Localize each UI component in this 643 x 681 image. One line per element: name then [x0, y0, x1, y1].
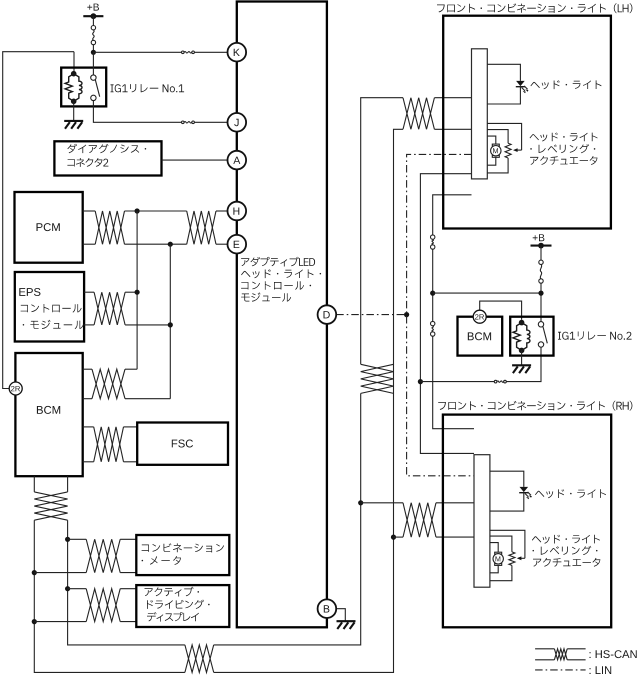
LH inner connector rect	[472, 49, 488, 179]
connector E	[228, 235, 247, 254]
potentiometer RH	[509, 552, 515, 566]
wire motor bottom LH	[487, 157, 496, 165]
wiper arrow LH	[515, 149, 522, 151]
BCM box right	[458, 317, 503, 356]
wire coil to ground	[521, 350, 523, 365]
battery +B No.2	[533, 234, 545, 241]
twisted pair display	[86, 589, 120, 622]
wire into LH CAN-L	[434, 128, 471, 130]
wire PCM CAN-L	[83, 243, 96, 245]
wire switch top	[92, 52, 94, 75]
wire FSC pair bottom	[83, 461, 94, 463]
legend LIN label	[590, 666, 612, 674]
wire display pair bottom	[34, 621, 86, 623]
node CAN A to RH	[358, 500, 363, 505]
wire into LH CAN-H	[434, 97, 471, 99]
relay IG1 No.1 switch	[91, 75, 96, 80]
meter label	[142, 543, 224, 552]
motor LH	[492, 144, 499, 146]
wire	[120, 572, 136, 574]
wire LED loop bottom	[487, 86, 520, 104]
twisted pair EPS	[94, 292, 125, 325]
connector J	[228, 113, 247, 132]
legend LIN symbol	[535, 669, 586, 671]
leveling actuator label LH	[530, 133, 598, 142]
connector B	[318, 599, 337, 618]
wire	[125, 324, 170, 326]
RH inner connector rect	[474, 455, 490, 588]
connector 2R BCM	[9, 382, 22, 395]
twisted pair vertical CAN	[361, 364, 394, 393]
LED head light LH	[516, 81, 525, 86]
wire +B junction	[433, 292, 541, 294]
wire	[125, 368, 137, 370]
wire	[92, 45, 94, 53]
relay IG1 No.2 coil	[519, 320, 525, 326]
wire IG feed to LH	[420, 174, 474, 454]
wire RH CAN-L	[394, 536, 404, 538]
combination meter box	[136, 535, 229, 575]
wire	[125, 210, 187, 212]
wire to E	[216, 243, 228, 245]
PCM label	[37, 223, 60, 231]
wire	[125, 398, 170, 400]
fuse RH headlight	[431, 321, 435, 325]
relay IG1 No.1 box	[61, 68, 106, 107]
wire	[124, 426, 138, 428]
fuse main No.1	[91, 26, 95, 30]
wire to H	[216, 210, 228, 212]
wire	[92, 16, 94, 25]
wire to K	[93, 51, 181, 53]
wire 2R to relay coil No.2	[480, 301, 522, 320]
node LIN	[404, 312, 409, 317]
wire	[120, 588, 136, 590]
diagnosis connector 2 box	[54, 141, 161, 175]
wire CAN B bottom	[214, 537, 394, 672]
wire RH CAN-H	[361, 502, 403, 504]
wire CAN B up	[394, 129, 404, 537]
wire	[124, 461, 138, 463]
wire CAN-H bus	[136, 211, 138, 369]
legend HS-CAN symbol	[535, 648, 554, 650]
legend HS-CAN label	[590, 650, 637, 658]
wire LED loop top	[487, 64, 520, 81]
diagnosis label	[67, 144, 146, 153]
wire EPS CAN-H	[84, 291, 94, 293]
LH title	[437, 3, 632, 13]
potentiometer LH	[505, 143, 511, 158]
twisted pair BCM lower	[34, 492, 67, 520]
leveling actuator label RH	[532, 535, 600, 544]
node +B feed	[430, 291, 435, 296]
wire coil to ground	[73, 101, 75, 121]
BCM box	[15, 353, 82, 476]
wire wiper RH	[490, 530, 525, 558]
head light label RH	[535, 489, 606, 498]
wire CAN B down	[34, 520, 185, 672]
fuse main No.2	[539, 260, 543, 264]
wire potentiometer bottom LH	[487, 158, 508, 173]
wire	[120, 538, 136, 540]
wire	[194, 51, 227, 53]
ground relay No.1	[64, 120, 83, 122]
wire wiper LH	[487, 123, 521, 150]
motor RH	[495, 552, 502, 554]
node +B junction	[91, 50, 96, 55]
BCM right label	[468, 332, 491, 340]
twisted pair PCM	[95, 211, 124, 244]
connector A	[228, 151, 247, 170]
connector K	[228, 43, 247, 62]
node meter H	[65, 537, 70, 542]
node	[168, 322, 173, 327]
connector 2R BCM right	[473, 310, 486, 323]
display label	[145, 587, 200, 597]
wire potentiometer top RH	[490, 536, 512, 552]
wire	[125, 291, 137, 293]
wire switch to J	[93, 101, 181, 123]
wire meter pair bottom	[34, 572, 86, 574]
wire CAN A up	[361, 98, 403, 365]
twisted pair bottom run	[185, 645, 214, 673]
wire +B feed to RH	[433, 336, 474, 429]
RH title	[438, 401, 632, 411]
fusible link K	[182, 51, 185, 54]
wire potentiometer bottom RH	[490, 565, 512, 580]
wire LED loop bottom RH	[490, 492, 524, 511]
wire diag to A	[162, 159, 228, 161]
wire FSC pair top	[83, 426, 94, 428]
wire +B feed to LH	[433, 195, 472, 235]
wire PCM CAN-H	[83, 210, 96, 212]
wire	[436, 502, 474, 504]
relay IG1 No.2 switch	[538, 322, 543, 327]
LED head light RH	[520, 487, 529, 492]
module label	[241, 257, 315, 267]
front combination light LH box	[443, 16, 611, 229]
wire display pair top	[68, 588, 87, 590]
wire relay coil feed	[73, 52, 75, 71]
front combination light RH box	[443, 415, 611, 628]
node display L	[32, 619, 37, 624]
node CAN-L bus	[168, 242, 173, 247]
twisted pair to RH light	[403, 503, 436, 537]
BCM label	[37, 406, 60, 414]
head light label LH	[531, 80, 602, 89]
wire CAN A bottom	[214, 393, 361, 645]
ground module B	[337, 620, 356, 622]
twisted pair meter	[86, 539, 120, 572]
wire CAN-L bus	[169, 244, 171, 399]
wire	[432, 249, 434, 321]
relay No.1 label	[111, 84, 185, 92]
wire BCM CAN-H	[83, 368, 92, 370]
adaptive LED headlight control module box	[237, 2, 327, 628]
active driving display box	[136, 585, 229, 627]
wire	[194, 121, 227, 123]
wire meter pair top	[68, 538, 87, 540]
FSC box	[137, 423, 228, 465]
PCM box	[15, 192, 83, 263]
ground relay No.2	[512, 364, 531, 366]
node relay No.2 feed	[538, 291, 543, 296]
wire potentiometer top LH	[487, 130, 508, 144]
wire CAN A down	[68, 520, 185, 645]
relay No.2 label	[558, 331, 632, 339]
node IG feed	[418, 379, 423, 384]
wire	[506, 347, 541, 381]
twisted pair FSC	[94, 427, 124, 462]
twisted pair to H E	[187, 211, 216, 244]
wire LED loop top RH	[490, 471, 524, 487]
wire motor top RH	[490, 543, 498, 553]
node display H	[65, 586, 70, 591]
fusible link J	[182, 121, 185, 124]
twisted pair to LH light	[403, 98, 434, 130]
wire motor bottom RH	[490, 565, 498, 572]
wire B to ground	[336, 609, 345, 621]
node CAN-H bus	[135, 208, 140, 213]
connector H	[228, 202, 247, 221]
wire EPS CAN-L	[84, 324, 94, 326]
wire BCM lower CAN B	[33, 476, 35, 492]
wire	[436, 536, 474, 538]
node meter L	[32, 570, 37, 575]
fuse LH headlight	[431, 235, 435, 239]
fusible link headlight	[494, 380, 497, 383]
wiper arrow RH	[518, 557, 525, 559]
wire	[540, 283, 542, 321]
node	[135, 290, 140, 295]
relay IG1 No.1 coil	[71, 71, 77, 77]
FSC label	[172, 440, 193, 448]
LIN bus vertical	[407, 154, 474, 475]
wire	[540, 246, 542, 261]
wire to relay switch	[420, 381, 494, 383]
relay IG1 No.2 box	[510, 317, 553, 356]
wire BCM lower CAN A	[67, 476, 69, 492]
twisted pair BCM	[92, 369, 125, 399]
battery +B No.1	[87, 4, 99, 11]
wire BCM CAN-L	[83, 398, 92, 400]
LIN wire from D	[336, 314, 406, 316]
wire	[125, 243, 187, 245]
node CAN B to RH	[391, 535, 396, 540]
EPS control module box	[15, 272, 84, 342]
wire BCM 2R to relay coil	[3, 52, 74, 389]
wire	[120, 621, 136, 623]
wire motor top LH	[487, 136, 496, 144]
EPS label	[19, 288, 40, 296]
connector D	[318, 305, 337, 324]
